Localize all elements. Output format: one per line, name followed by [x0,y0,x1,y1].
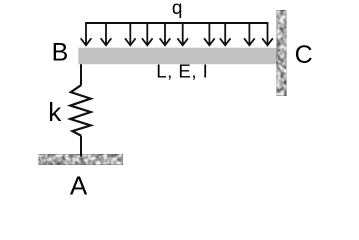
load arrow 3 [125,23,136,45]
svg-text:k: k [48,97,62,127]
load arrow 5 [160,23,171,45]
spring k (zigzag) [70,85,90,135]
load arrow 4 [142,23,153,45]
load arrow 6 [177,23,188,45]
svg-text:C: C [295,41,313,69]
load arrow 8 [220,23,231,45]
ground at A (speckled) [39,154,123,165]
load arrow 10 [262,22,273,45]
wire beam to spring [80,64,82,85]
load arrow 2 [101,23,112,45]
svg-text:L, E, I: L, E, I [156,61,208,82]
wire spring to ground [80,136,82,157]
svg-text:A: A [70,171,88,201]
svg-text:B: B [52,39,69,67]
load arrow 7 [204,23,215,45]
load arrow 9 [244,23,255,45]
wall at C (speckled) [277,10,287,95]
load arrow 1 [81,22,92,45]
svg-text:q: q [172,0,183,19]
distributed load top line [86,22,268,24]
beam B-C (gray rectangle) [78,48,277,64]
